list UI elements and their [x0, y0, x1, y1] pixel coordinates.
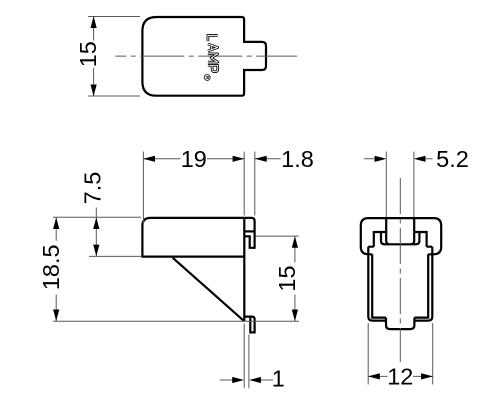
dim 1: extension lines: [244, 324, 249, 389]
dim 5.2: dimension lines and arrows: [364, 158, 433, 160]
dim 15 top view: dimension line: [93, 17, 95, 97]
dim 15 top view: extension lines: [88, 17, 140, 97]
dim 19 arrows: [143, 156, 155, 162]
front view plate top and right face with top hook: [244, 218, 254, 248]
side view inner steps D/E: [381, 232, 419, 244]
dim 5.2 extension lines: [386, 152, 414, 218]
dim 15 arrows: [91, 16, 97, 28]
dim 18.5 arrows: [53, 217, 59, 229]
dim 15 right: dimension line: [294, 236, 296, 321]
dim 1.8: arrow and line: [255, 158, 281, 160]
dim 1: dimension lines: [220, 379, 273, 381]
LAMP logo: [204, 35, 218, 80]
side view cap outline: [361, 218, 441, 254]
front view arm outline: [142, 218, 244, 257]
dim 7.5 bottom extension line: [89, 255, 141, 257]
dim 18.5 extension lines: [53, 217, 299, 321]
svg-text:18.5: 18.5: [38, 244, 64, 290]
diagonal brace: [173, 258, 245, 321]
dim 19: dimension line: [143, 158, 244, 160]
svg-text:12: 12: [387, 363, 413, 389]
side view bottom tab: [386, 318, 414, 330]
svg-text:15: 15: [274, 265, 300, 291]
side view top tab: [386, 218, 414, 244]
svg-text:1: 1: [272, 366, 285, 392]
svg-text:15: 15: [75, 41, 101, 67]
bottom hook: [244, 317, 254, 333]
plate left face: [243, 218, 245, 321]
side view inner bars C: [368, 246, 432, 248]
side view body inner walls: [372, 254, 428, 317]
side view centerline: [399, 178, 401, 362]
dim 12 arrows: [368, 373, 380, 379]
dim 15 right arrows: [292, 236, 298, 248]
side view body outer walls: [368, 247, 432, 321]
dim 19 extension lines: [143, 152, 254, 225]
dim 7.5 arrows: [93, 217, 99, 229]
dim 1 arrows: [232, 377, 244, 383]
top view body: [142, 17, 266, 96]
dim 12: dimension line: [368, 375, 433, 377]
svg-text:5.2: 5.2: [436, 146, 469, 172]
top hook notch bar: [244, 230, 254, 232]
svg-text:19: 19: [181, 146, 207, 172]
side view inner step columns: [374, 231, 427, 247]
dim 18.5: dimension line: [55, 217, 57, 321]
side view inner step bars: [374, 231, 427, 233]
svg-text:7.5: 7.5: [80, 172, 106, 205]
svg-text:1.8: 1.8: [281, 146, 314, 172]
dim 7.5: dimension line: [95, 208, 97, 256]
dim 12: extension lines: [368, 323, 433, 385]
dim 15 right top extension line: [256, 235, 299, 237]
top view centerline: [115, 55, 297, 57]
